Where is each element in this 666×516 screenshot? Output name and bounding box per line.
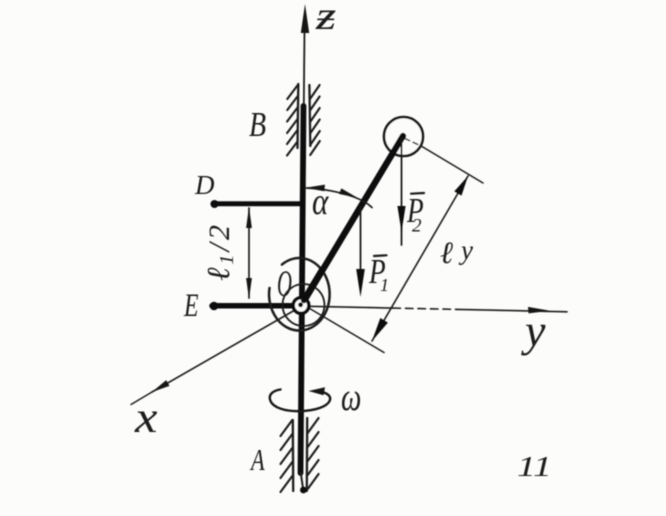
- hinge middle circle at O: [283, 284, 325, 326]
- force P1 line: [360, 207, 362, 272]
- dimension line l4: [372, 176, 468, 341]
- svg-text:11: 11: [517, 451, 552, 483]
- svg-text:A: A: [249, 442, 265, 476]
- z-axis: [301, 4, 309, 106]
- force P2 line: [401, 138, 403, 245]
- x-axis: [152, 310, 295, 392]
- alpha arc left arrowhead: [306, 185, 326, 192]
- omega rotation arrow: [270, 390, 330, 412]
- svg-text:x: x: [134, 394, 158, 442]
- svg-text:B: B: [249, 105, 266, 144]
- alpha arc right arrowhead: [339, 188, 357, 197]
- svg-text:E: E: [183, 287, 199, 324]
- hinge center dot: [298, 302, 303, 307]
- dimension line l1/2: [248, 208, 250, 298]
- rod OB (pendulum rod): [301, 136, 403, 306]
- E end dot: [210, 302, 219, 311]
- svg-text:y: y: [521, 305, 546, 356]
- rod stub over hinge: [304, 270, 322, 300]
- bearing A left wall: [292, 420, 295, 491]
- angle alpha arc: [307, 188, 373, 208]
- extension line from ball (dashed): [405, 139, 422, 147]
- hinge ring at O: [293, 298, 309, 314]
- svg-text:y: y: [458, 235, 473, 265]
- l4 lower arrowhead: [372, 318, 388, 341]
- bearing B hatching left: [287, 85, 298, 156]
- extension line from O (for l4 dimension): [308, 308, 384, 353]
- svg-text:1: 1: [380, 275, 389, 295]
- label P1: [368, 252, 389, 295]
- hinge outer sketched circle at O: [269, 258, 330, 331]
- svg-text:α: α: [312, 180, 329, 223]
- bearing B right wall: [308, 85, 311, 146]
- svg-text:O: O: [277, 264, 292, 305]
- force P1 arrowhead: [356, 269, 365, 297]
- svg-text:D: D: [194, 170, 215, 200]
- bearing B hatching right: [310, 85, 320, 155]
- svg-text:2: 2: [412, 216, 422, 237]
- shaft bottom pivot dot: [300, 487, 307, 494]
- bearing A right wall: [306, 418, 309, 491]
- bearing A hatching left: [281, 420, 293, 492]
- y-axis: [309, 306, 567, 312]
- shaft (vertical rotating axle): [301, 106, 304, 473]
- crank pin D line: [213, 201, 301, 206]
- shaft lower thin end: [301, 473, 303, 487]
- svg-text:ƶ: ƶ: [315, 0, 336, 38]
- bearing B left wall: [296, 84, 299, 148]
- label P2: [406, 191, 424, 237]
- crank pin E line: [212, 303, 294, 309]
- y-axis arrowhead: [528, 307, 550, 314]
- ball (point mass): [384, 117, 423, 156]
- svg-text:ω: ω: [341, 374, 361, 419]
- bearing A hatching right: [308, 418, 319, 489]
- D end dot: [211, 200, 219, 208]
- l1/2 upper arrowhead: [246, 207, 252, 228]
- l1/2 lower arrowhead: [246, 278, 252, 299]
- force P2 arrowhead: [397, 206, 405, 232]
- svg-text:ℓ1/2: ℓ1/2: [200, 225, 238, 281]
- x-axis overshoot: [131, 392, 152, 405]
- x-axis arrowhead: [152, 380, 170, 392]
- svg-text:ℓ: ℓ: [440, 235, 453, 270]
- l4 upper arrowhead: [454, 176, 468, 196]
